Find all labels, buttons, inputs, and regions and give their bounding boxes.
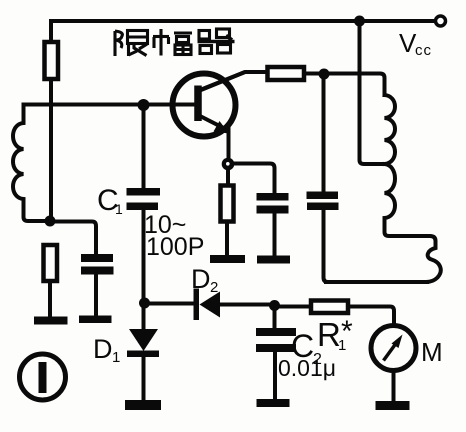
resistor R1	[311, 301, 348, 314]
inductor L2 right coil lower section	[385, 164, 441, 282]
symbol circled 1	[20, 354, 66, 400]
svg-text:D: D	[191, 264, 211, 294]
node collector tank junction	[319, 69, 330, 80]
wire left vertical from rail to R top	[49, 21, 53, 42]
terminal Vcc open circle	[436, 16, 446, 26]
node base / C1 junction	[138, 99, 150, 111]
器	[199, 31, 210, 40]
wire D1 cathode to ground	[142, 357, 146, 400]
ground under left cap	[79, 316, 112, 324]
wire junction to right branch	[50, 222, 96, 255]
node top rail junction	[354, 16, 365, 27]
ground under D1	[125, 400, 161, 410]
meter M	[371, 326, 416, 371]
wire collector resistor to coil top	[304, 74, 385, 96]
node D1/D2 junction	[139, 298, 150, 309]
wire node to R1	[277, 305, 311, 309]
node left coil junction	[45, 216, 56, 227]
ground under bypass cap	[257, 256, 290, 264]
wire emitter resistor to ground	[225, 222, 229, 255]
capacitor C2 plates	[256, 328, 296, 336]
ground under emitter resistor	[210, 255, 245, 263]
wire emitter junction right to bypass cap	[234, 164, 275, 194]
svg-text:1: 1	[112, 349, 120, 366]
ground under lower-left resistor	[34, 317, 68, 325]
resistor collector load	[268, 67, 305, 80]
wire tank node down to tank cap	[322, 76, 326, 192]
wire C2 bottom to ground	[273, 352, 277, 398]
wire C1 bottom down to D node	[142, 210, 146, 300]
node emitter junction (donut)	[222, 158, 235, 171]
svg-text:100P: 100P	[146, 233, 204, 261]
resistor emitter	[221, 186, 234, 222]
capacitor emitter bypass plates	[257, 193, 289, 201]
幅 right	[174, 31, 192, 34]
wire meter to ground	[392, 371, 396, 401]
diode D1 triangle and bar	[129, 329, 158, 351]
wire C1 top from base node	[142, 105, 146, 188]
限 right part	[128, 31, 148, 44]
wire Vcc drop to coil tap	[360, 21, 384, 164]
wire left cap to ground	[94, 274, 98, 316]
wire R1 to meter	[348, 307, 394, 326]
ground under meter	[376, 401, 410, 410]
wire emitter junction to resistor	[226, 170, 230, 185]
svg-text:cc: cc	[415, 42, 432, 59]
wire C2 node down to C2	[273, 308, 277, 328]
wire base line	[24, 103, 195, 107]
wire lower-left resistor to ground	[48, 281, 52, 316]
wire bypass cap to ground	[273, 212, 277, 254]
capacitor left plates	[81, 254, 113, 262]
diode D2 triangle and bar	[194, 289, 200, 321]
transistor emitter arrow	[214, 121, 230, 134]
resistor upper-left bias	[45, 42, 59, 79]
wire tank cap bottom to bottom rail	[324, 210, 329, 282]
wire collector diagonal	[201, 72, 267, 90]
inductor L1 left coil	[13, 105, 48, 222]
幅 left 巾	[153, 35, 169, 38]
transistor Q1	[173, 72, 246, 137]
wire top supply rail	[51, 19, 435, 23]
wire R bottom down to lower junction	[49, 79, 53, 221]
svg-text:D: D	[93, 334, 113, 364]
label 限幅器 (limiter)	[115, 29, 235, 56]
svg-text:1: 1	[115, 201, 123, 217]
wire bottom return to coil end	[326, 280, 427, 284]
svg-text:0.01μ: 0.01μ	[278, 355, 336, 381]
ground under C2	[257, 399, 290, 407]
inductor L2 right coil upper section	[385, 95, 396, 164]
capacitor tank plates	[307, 192, 339, 200]
node C2/R1 junction	[269, 300, 280, 311]
svg-text:*: *	[341, 315, 353, 348]
capacitor C1 plates	[127, 188, 161, 196]
resistor lower-left	[44, 245, 58, 281]
svg-text:2: 2	[210, 279, 218, 296]
svg-text:M: M	[421, 337, 443, 367]
限 left ear	[113, 31, 116, 56]
wire D1 branch	[142, 306, 146, 330]
wire D2 right to C2 node	[220, 303, 273, 307]
wire D2 left	[149, 302, 193, 306]
wire emitter vertical	[227, 128, 231, 157]
